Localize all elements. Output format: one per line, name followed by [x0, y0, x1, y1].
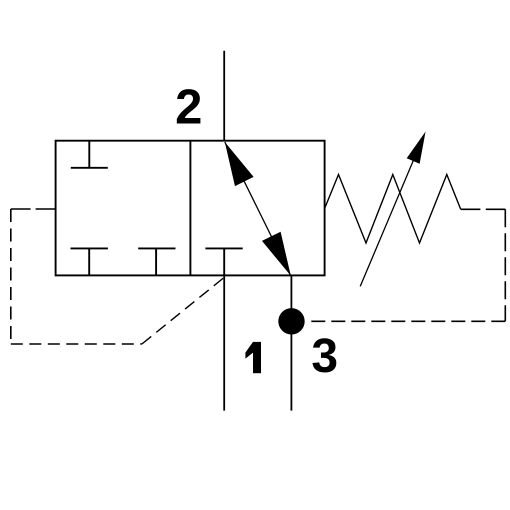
blocked port T (left cell, top) [71, 141, 108, 168]
pilot line (dashed, left): tap from box left edge [11, 208, 56, 210]
pilot line (dashed, bottom horizontal) [11, 343, 142, 345]
port label 1 [245, 342, 261, 373]
flow path arrow shaft (right cell) [225, 142, 291, 276]
spring (zigzag, right side) [325, 175, 461, 244]
port 2 line [223, 51, 225, 141]
blocked port T (left cell, bottom left) [71, 248, 108, 275]
adjustment arrowhead [407, 132, 426, 164]
blocked port T (right cell, bottom) [205, 248, 242, 275]
valve body envelope (2-position box) [56, 141, 325, 276]
adjustment arrow shaft [360, 155, 415, 286]
svg-text:2: 2 [175, 81, 202, 135]
port 1 line [223, 275, 225, 410]
flow path arrowhead (top, at port 2) [225, 142, 254, 186]
position divider line [189, 141, 191, 276]
pilot line (dashed, left vertical) [10, 209, 12, 344]
pilot line (dashed, diagonal to port 1) [142, 277, 224, 344]
svg-text:3: 3 [311, 330, 338, 383]
flow path arrowhead (bottom, at port 3) [262, 232, 291, 276]
port 3 line [290, 276, 292, 411]
pilot line (dashed, to node dot) [307, 320, 505, 322]
pilot line (dashed, right from spring) [461, 208, 506, 210]
node junction dot (port 3) [278, 308, 304, 334]
pilot line (dashed, right vertical) [504, 209, 506, 321]
blocked port T (left cell, bottom right) [138, 248, 175, 275]
